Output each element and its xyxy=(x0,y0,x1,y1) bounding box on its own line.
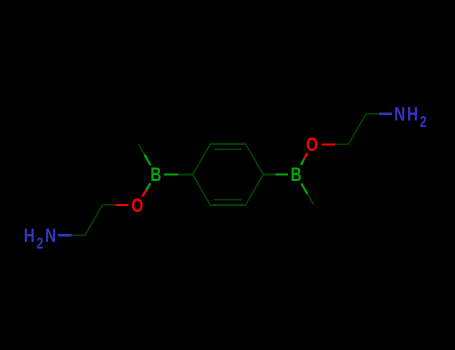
bond O2-C dark half xyxy=(335,143,349,145)
bond O1-C red half xyxy=(115,204,128,206)
bond C-N left dark half xyxy=(72,234,86,236)
bond B1-ring dark half xyxy=(178,174,193,176)
bond C-N left blue half xyxy=(58,234,72,236)
bond B1-O1 bright half xyxy=(146,183,150,190)
bond B1-O1 red half xyxy=(142,190,146,197)
bond O2-C red half xyxy=(321,143,335,145)
bond B2-ring bright half xyxy=(276,173,288,175)
svg-text:O: O xyxy=(131,194,143,216)
bond B2-CH3 bright half xyxy=(301,183,307,194)
bond C-N right blue half xyxy=(379,113,392,115)
bond B2-ring dark half xyxy=(263,174,276,176)
bond C-C left chain xyxy=(85,205,103,235)
bond C-C right chain xyxy=(348,114,366,144)
svg-text:O: O xyxy=(306,134,318,156)
benzene ring xyxy=(193,144,264,205)
bond O1-C dark half xyxy=(103,204,116,206)
bond B1-CH3 bright half xyxy=(144,155,150,166)
svg-text:B: B xyxy=(291,164,302,186)
bond B2-O2 red half xyxy=(304,153,307,159)
bond B1-CH3 dark half xyxy=(138,144,144,155)
bond B2-CH3 dark half xyxy=(308,194,314,205)
bond C-N right dark half xyxy=(366,113,379,115)
svg-text:B: B xyxy=(150,164,161,186)
bond B2-O2 bright half xyxy=(301,159,304,165)
bond B1-ring bright half xyxy=(164,173,178,175)
